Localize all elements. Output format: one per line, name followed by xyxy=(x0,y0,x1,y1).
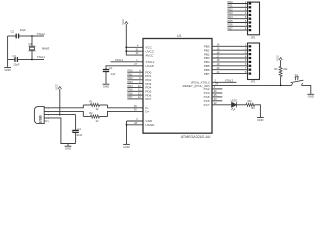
net PD0 stub (U1 pin 6) xyxy=(127,69,143,73)
wire - VCC to VBUS xyxy=(59,89,61,115)
svg-text:JP1: JP1 xyxy=(251,80,256,84)
svg-text:22pF: 22pF xyxy=(20,28,26,32)
svg-text:USB: USB xyxy=(38,115,42,123)
junction - VCC/AVCC xyxy=(125,50,127,52)
svg-text:U1: U1 xyxy=(177,34,182,38)
svg-text:PD3: PD3 xyxy=(228,11,234,15)
net PD4 stub (U1 pin 10) xyxy=(127,84,143,88)
connector JP1 header xyxy=(248,43,260,84)
svg-text:C1: C1 xyxy=(109,66,113,70)
svg-text:PD1: PD1 xyxy=(128,72,134,76)
svg-text:8MHZ: 8MHZ xyxy=(42,46,50,50)
power VCC - U1 supply xyxy=(121,19,128,25)
wire - crystal left rail xyxy=(7,36,9,60)
svg-text:C3: C3 xyxy=(12,54,16,58)
wire - S1 to ground xyxy=(302,85,311,94)
wire - RESET net xyxy=(212,83,292,86)
svg-text:220: 220 xyxy=(247,99,252,103)
resistor R4 10k xyxy=(274,60,288,76)
net PD1 stub to JP2 pin 2 xyxy=(228,4,248,8)
svg-text:XTAL1: XTAL1 xyxy=(37,55,46,59)
svg-text:GND: GND xyxy=(257,118,263,122)
pin 32 AVCC xyxy=(136,52,139,55)
capacitor C3 22pF (bottom) xyxy=(8,54,32,66)
svg-text:PD5: PD5 xyxy=(128,88,134,92)
capacitor C2 22pF (top) xyxy=(8,28,32,38)
ground - C1 xyxy=(103,84,110,88)
resistor R3 220 xyxy=(246,99,255,110)
svg-text:UGND: UGND xyxy=(145,123,155,127)
svg-text:10uF: 10uF xyxy=(76,133,82,137)
net PD2 stub to JP2 pin 3 xyxy=(228,7,248,11)
ground - USB xyxy=(65,144,72,151)
svg-text:PD6: PD6 xyxy=(228,23,234,27)
svg-text:PD7: PD7 xyxy=(145,97,151,101)
wire - R1 to U1 D- xyxy=(108,105,144,108)
capacitor C1 1uF xyxy=(103,66,116,76)
svg-text:C4: C4 xyxy=(77,127,81,131)
net PD7 stub to JP2 pin 8 xyxy=(228,26,248,30)
svg-text:PD0: PD0 xyxy=(128,69,134,73)
net PD5 stub to JP2 pin 6 xyxy=(228,19,248,23)
svg-text:JP2: JP2 xyxy=(250,36,255,40)
net PD1 stub (U1 pin 7) xyxy=(127,72,143,76)
wire - C1 to ground xyxy=(105,72,107,84)
svg-text:D+: D+ xyxy=(145,110,149,114)
wire - R2 to U1 D+ xyxy=(108,109,144,117)
node XTAL2 (crystal top) xyxy=(31,32,45,37)
wire - USB GND net xyxy=(44,118,75,144)
ground - LED1/R3 xyxy=(257,118,264,122)
svg-text:GND: GND xyxy=(123,145,129,149)
svg-text:22: 22 xyxy=(96,119,99,123)
svg-text:XTAL2: XTAL2 xyxy=(225,78,234,82)
junction - GND/UGND xyxy=(126,124,128,126)
svg-text:R4: R4 xyxy=(274,67,278,71)
capacitor C4 10uF xyxy=(72,115,83,137)
net PD4 stub to JP2 pin 5 xyxy=(228,15,248,19)
wire - PC7 to LED1 xyxy=(212,102,232,105)
svg-text:GND: GND xyxy=(308,95,314,99)
svg-text:PD5: PD5 xyxy=(228,19,234,23)
wire - UCAP xyxy=(106,63,143,69)
svg-text:S1: S1 xyxy=(295,73,299,77)
wire PB6 (U1 pin 20 to JP1 pin 7) xyxy=(212,67,248,70)
power VCC - reset pullup xyxy=(275,55,282,61)
svg-text:10k: 10k xyxy=(283,67,288,71)
svg-text:PD4: PD4 xyxy=(228,15,234,19)
U1 left pin labels xyxy=(145,45,155,127)
svg-text:PD6: PD6 xyxy=(128,91,134,95)
op-amp U1 ATMEGA32U2-AU body xyxy=(143,34,212,139)
junction - VCC/UVCC xyxy=(125,46,127,48)
wire - VBUS net xyxy=(44,114,75,116)
net PD6 stub (U1 pin 12) xyxy=(127,91,143,95)
ground - S1 xyxy=(307,94,314,98)
wire PB5 (U1 pin 19 to JP1 pin 6) xyxy=(212,63,248,66)
svg-text:PD0: PD0 xyxy=(228,0,234,4)
svg-text:PC7: PC7 xyxy=(204,103,210,107)
svg-text:R1: R1 xyxy=(89,100,93,104)
svg-text:1uF: 1uF xyxy=(111,72,116,76)
svg-text:PB7: PB7 xyxy=(204,72,210,76)
svg-text:XTAL1: XTAL1 xyxy=(115,58,124,62)
wire PB7 (U1 pin 21 to JP1 pin 8) xyxy=(212,71,248,74)
svg-text:UCAP: UCAP xyxy=(145,64,153,68)
connector JP2 header xyxy=(248,2,260,40)
svg-text:VCC: VCC xyxy=(121,19,125,25)
net PC4 stub (U1 pin 26) xyxy=(212,90,222,93)
crystal Q1 8MHZ xyxy=(28,36,49,60)
svg-text:22: 22 xyxy=(96,107,99,111)
svg-text:ATMEGA32U2-AU: ATMEGA32U2-AU xyxy=(181,135,211,139)
svg-text:PD2: PD2 xyxy=(128,76,134,80)
resistor R1 22 xyxy=(83,100,107,112)
pin 31 UVCC xyxy=(136,48,139,51)
LED1 xyxy=(231,99,238,111)
svg-text:C2: C2 xyxy=(11,30,15,34)
net PC2 stub (U1 pin 5) xyxy=(212,86,222,89)
net PD2 stub (U1 pin 8) xyxy=(127,76,143,80)
node XTAL1 (crystal bottom) xyxy=(31,55,45,60)
svg-text:VCC: VCC xyxy=(275,55,279,61)
wire - VCC rail to U1 power pins xyxy=(126,24,143,55)
wire PB0 (U1 pin 14 to JP1 pin 1) xyxy=(212,44,248,47)
svg-text:R3: R3 xyxy=(251,106,255,110)
ground - U1 xyxy=(123,144,130,148)
net PC6 stub (U1 pin 23) xyxy=(212,98,222,101)
junction - VBUS xyxy=(59,114,61,116)
wire PB2 (U1 pin 16 to JP1 pin 3) xyxy=(212,51,248,54)
wire PB4 (U1 pin 18 to JP1 pin 5) xyxy=(212,59,248,62)
net PD3 stub (U1 pin 9) xyxy=(127,80,143,84)
power VCC - USB VBUS xyxy=(55,84,62,90)
net PD0 stub to JP2 pin 1 xyxy=(228,0,248,4)
net PD3 stub to JP2 pin 4 xyxy=(228,11,248,15)
svg-text:GND: GND xyxy=(4,68,10,72)
connector X1 USB xyxy=(34,107,49,124)
svg-text:PD2: PD2 xyxy=(228,7,234,11)
wire - D- net (USB to R1) xyxy=(44,105,83,108)
svg-text:VCC: VCC xyxy=(55,84,59,90)
net PD7 stub (U1 pin 13) xyxy=(127,95,143,99)
wire - R4 to RESET xyxy=(280,77,282,86)
svg-text:PD7: PD7 xyxy=(128,95,134,99)
svg-text:R2: R2 xyxy=(89,111,93,115)
svg-text:GND: GND xyxy=(65,147,71,151)
wire PB1 (U1 pin 15 to JP1 pin 2) xyxy=(212,48,248,51)
net XTAL1 to U1 xyxy=(111,58,144,62)
svg-text:GND: GND xyxy=(103,85,109,89)
wire - D+ net (USB to R2) xyxy=(44,111,83,116)
wire - R3 to ground xyxy=(255,105,261,117)
svg-text:PD7: PD7 xyxy=(228,26,234,30)
resistor R2 22 xyxy=(83,111,107,123)
svg-text:22pF: 22pF xyxy=(13,63,19,67)
net PD6 stub to JP2 pin 7 xyxy=(228,23,248,27)
wire PB3 (U1 pin 17 to JP1 pin 4) xyxy=(212,55,248,58)
wire - U1 GND/UGND to ground xyxy=(127,118,144,144)
net XTAL2 stub (U1 pin 2) xyxy=(212,78,237,82)
svg-text:XTAL2: XTAL2 xyxy=(37,32,46,36)
junction - RESET/R4 xyxy=(280,85,282,87)
switch S1 reset button xyxy=(291,73,304,85)
svg-text:5: 5 xyxy=(48,121,50,123)
net PD5 stub (U1 pin 11) xyxy=(127,88,143,92)
svg-text:AVCC: AVCC xyxy=(145,53,154,57)
svg-text:PD4: PD4 xyxy=(128,84,134,88)
ground - crystal xyxy=(4,60,11,73)
wire - C4 to ground rail xyxy=(75,132,77,143)
svg-text:Q1: Q1 xyxy=(28,42,32,46)
svg-text:PD1: PD1 xyxy=(228,4,234,8)
wire - LED1 to R3 xyxy=(237,104,247,106)
svg-text:PD3: PD3 xyxy=(128,80,134,84)
pin 4 VCC xyxy=(137,44,139,47)
svg-text:LED1: LED1 xyxy=(231,99,238,103)
net PC5 stub (U1 pin 25) xyxy=(212,94,222,97)
U1 right pin labels xyxy=(182,44,210,106)
